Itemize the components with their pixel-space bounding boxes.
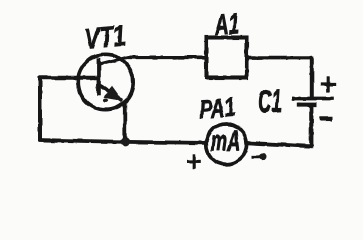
svg-text:A1: A1 (213, 9, 241, 42)
svg-text:VT1: VT1 (84, 21, 127, 56)
svg-text:mA: mA (211, 126, 241, 158)
svg-text:PA1: PA1 (198, 92, 236, 125)
svg-text:C1: C1 (257, 82, 283, 120)
